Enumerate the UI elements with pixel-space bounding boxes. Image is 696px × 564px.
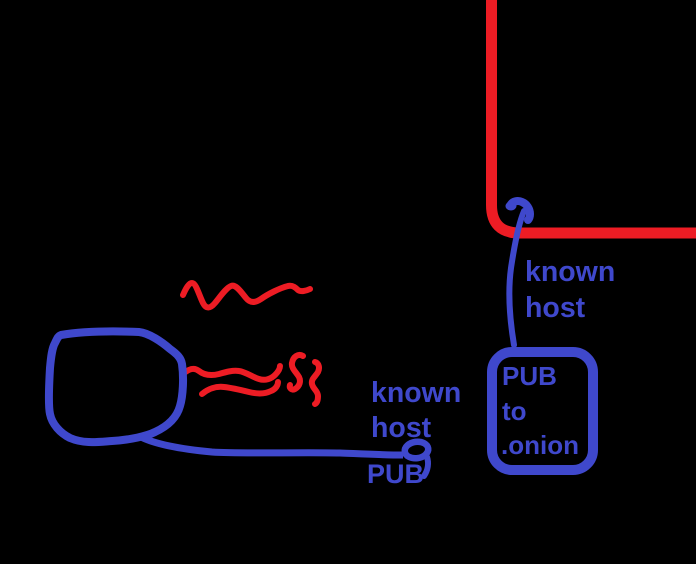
arrow head brush blob bbox=[506, 202, 517, 211]
arrow to red line (head) bbox=[510, 201, 530, 220]
svg-text:known: known bbox=[525, 256, 615, 288]
red squiggle (upper) bbox=[183, 283, 310, 308]
arrow loop head (left PUB arrow) bbox=[404, 440, 430, 460]
svg-text:PUB: PUB bbox=[502, 361, 557, 391]
arrow loop tail bbox=[424, 457, 428, 476]
red integral squiggle bbox=[312, 362, 319, 404]
svg-text:to: to bbox=[502, 396, 527, 426]
red wavy line (upper of pair) bbox=[184, 366, 280, 380]
red S squiggle bbox=[290, 355, 303, 390]
svg-text:host: host bbox=[525, 292, 586, 324]
arrow to red line (stem) bbox=[509, 211, 524, 345]
svg-text:host: host bbox=[371, 412, 432, 444]
wire: long blue line from blob to PUB arrow bbox=[141, 437, 403, 455]
svg-text:PUB: PUB bbox=[367, 459, 424, 489]
wire: red L-shaped line (top right) bbox=[492, 0, 696, 233]
red wavy line (lower of pair) bbox=[202, 382, 278, 394]
rounded rectangle PUB to .onion bbox=[492, 352, 593, 470]
svg-text:.onion: .onion bbox=[501, 430, 579, 460]
svg-text:known: known bbox=[371, 377, 461, 409]
blue blob (left host) bbox=[49, 331, 183, 442]
